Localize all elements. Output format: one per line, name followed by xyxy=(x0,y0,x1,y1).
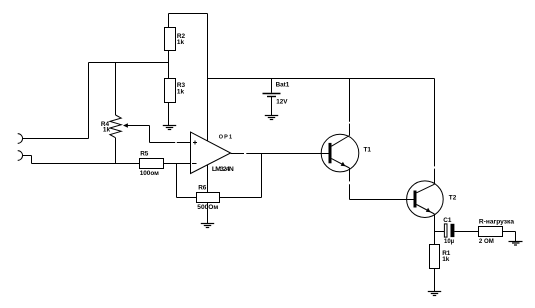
resistor R3 1k xyxy=(165,63,186,126)
input jack contact 1 xyxy=(18,134,23,144)
ground under R6 xyxy=(201,224,214,228)
resistor R5 100ohm xyxy=(140,151,191,177)
svg-text:1k: 1k xyxy=(442,256,450,263)
wire op-amp output to T1 base xyxy=(246,153,328,155)
input jack contact 2 xyxy=(18,151,23,161)
svg-text:1k: 1k xyxy=(177,39,185,46)
potentiometer R4 1k xyxy=(101,63,121,164)
svg-text:12V: 12V xyxy=(276,99,288,106)
svg-text:2 ОМ: 2 ОМ xyxy=(479,238,494,245)
R4 wiper arrow to op-amp + input xyxy=(123,123,191,142)
svg-text:C1: C1 xyxy=(443,217,452,224)
svg-text:T1: T1 xyxy=(364,146,372,153)
wire supply column to op-amp V+ xyxy=(207,14,209,142)
capacitor C1 10u xyxy=(435,217,479,245)
ground under battery xyxy=(265,116,278,120)
op-amp OP1 LM324N xyxy=(191,132,245,173)
svg-text:OP1: OP1 xyxy=(219,135,234,141)
wire T1 emitter to T2 base xyxy=(350,199,414,201)
svg-text:10µ: 10µ xyxy=(444,239,455,245)
ground under R3 xyxy=(163,126,176,130)
svg-text:100ом: 100ом xyxy=(140,170,159,177)
svg-text:Bat1: Bat1 xyxy=(276,82,290,89)
resistor R6 500ohm feedback xyxy=(197,165,262,224)
resistor R1 1k xyxy=(430,232,451,292)
wire input 2 to R5 xyxy=(23,156,140,164)
svg-text:1k: 1k xyxy=(177,89,185,96)
ground under R1 xyxy=(428,292,441,296)
wire feedback tap from inverting input down to R6 xyxy=(177,164,197,198)
resistor R2 1k xyxy=(165,14,186,63)
wire positive supply rail xyxy=(208,78,435,80)
transistor T1 xyxy=(321,79,371,200)
svg-text:500Ом: 500Ом xyxy=(197,204,218,211)
ground right of load xyxy=(509,242,523,246)
svg-text:R6: R6 xyxy=(198,185,207,192)
svg-text:T2: T2 xyxy=(449,195,457,202)
wire top xyxy=(169,13,208,15)
svg-text:R5: R5 xyxy=(140,151,149,158)
svg-text:1k: 1k xyxy=(103,126,111,133)
transistor T2 xyxy=(407,79,457,232)
load resistor R-nagruzka 2 Ohm xyxy=(479,218,516,244)
svg-text:R-нагрузка: R-нагрузка xyxy=(479,218,514,225)
wire R2/R3 junction to input column xyxy=(89,62,169,64)
wire feedback vertical from output xyxy=(261,154,263,198)
svg-text:LM324N: LM324N xyxy=(212,166,234,173)
battery Bat1 12V xyxy=(263,79,290,116)
wire input 1 to R2/R3 junction xyxy=(23,63,89,139)
